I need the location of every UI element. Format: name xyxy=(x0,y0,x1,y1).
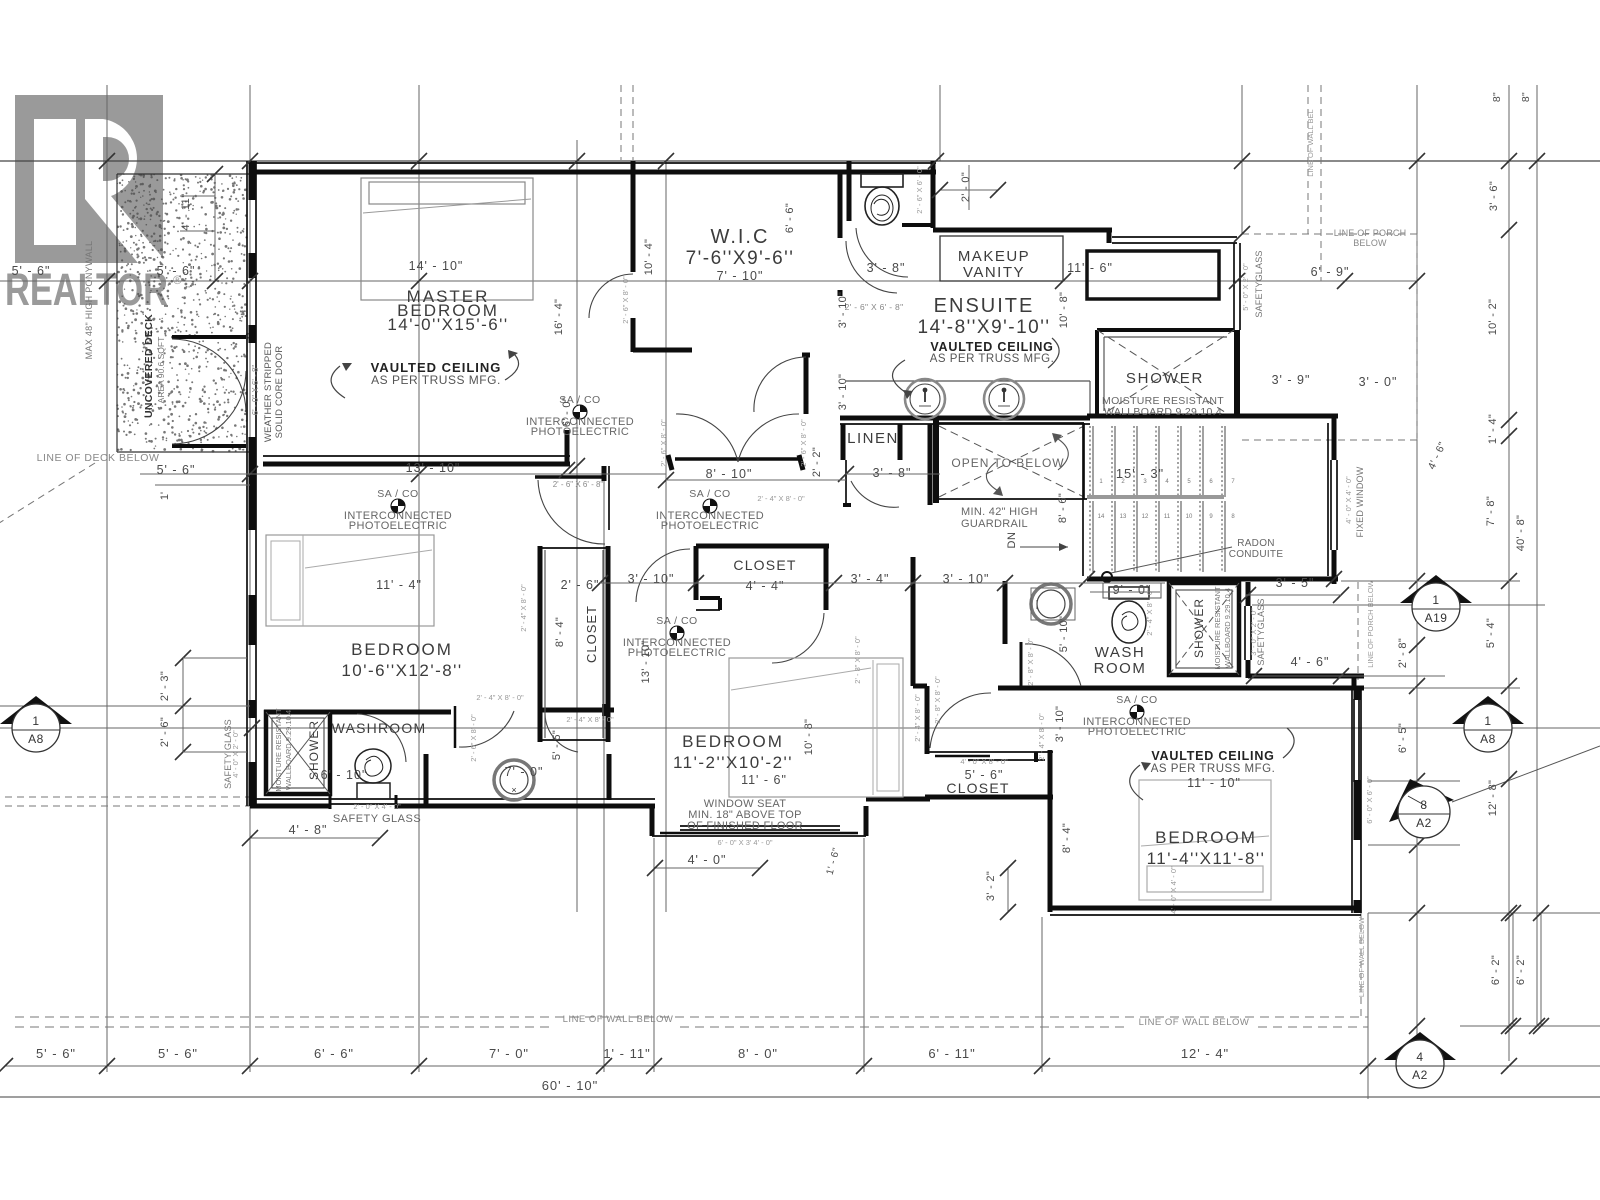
svg-text:AS PER TRUSS MFG.: AS PER TRUSS MFG. xyxy=(1151,763,1276,775)
svg-text:VANITY: VANITY xyxy=(963,264,1025,281)
svg-text:SAFETY GLASS: SAFETY GLASS xyxy=(333,813,421,825)
svg-text:3' - 9": 3' - 9" xyxy=(1272,373,1311,387)
svg-text:2' - 4" X 8' - 0": 2' - 4" X 8' - 0" xyxy=(913,694,922,742)
svg-text:WASH: WASH xyxy=(1095,644,1145,661)
svg-text:7' - 10": 7' - 10" xyxy=(717,269,764,283)
svg-text:10' - 8": 10' - 8" xyxy=(803,719,815,756)
svg-text:LINE OF WALL BEL: LINE OF WALL BEL xyxy=(1306,109,1315,176)
svg-text:12' - 4": 12' - 4" xyxy=(1181,1046,1229,1061)
svg-text:4' - 0" X 4' - 0": 4' - 0" X 4' - 0" xyxy=(1344,476,1353,524)
svg-text:PHOTOELECTRIC: PHOTOELECTRIC xyxy=(531,426,630,438)
svg-text:5' - 6": 5' - 6" xyxy=(965,768,1004,782)
svg-text:WEATHER STRIPPED: WEATHER STRIPPED xyxy=(263,342,274,442)
svg-text:6' - 0" X 3' 4' - 0": 6' - 0" X 3' 4' - 0" xyxy=(717,838,772,847)
svg-text:ROOM: ROOM xyxy=(1094,660,1147,677)
svg-text:6' - 2": 6' - 2" xyxy=(1515,955,1527,985)
svg-text:FIXED WINDOW: FIXED WINDOW xyxy=(1355,466,1365,537)
svg-text:VAULTED CEILING: VAULTED CEILING xyxy=(930,340,1053,354)
svg-text:LINEN: LINEN xyxy=(847,430,899,447)
svg-text:SHOWER: SHOWER xyxy=(1192,598,1206,658)
svg-text:PHOTOELECTRIC: PHOTOELECTRIC xyxy=(349,520,448,532)
svg-text:DN: DN xyxy=(1006,532,1018,549)
svg-text:2' - 6" X 6' - 8": 2' - 6" X 6' - 8" xyxy=(845,302,904,312)
svg-text:OPEN TO BELOW: OPEN TO BELOW xyxy=(951,456,1064,470)
svg-text:BEDROOM: BEDROOM xyxy=(1155,828,1257,847)
svg-text:2' - 4" X 8' - 0": 2' - 4" X 8' - 0" xyxy=(476,693,524,702)
svg-text:7' - 8": 7' - 8" xyxy=(1485,496,1497,526)
svg-text:SHOWER: SHOWER xyxy=(307,720,321,780)
svg-text:6' - 6": 6' - 6" xyxy=(314,1046,354,1061)
svg-text:2' - 0": 2' - 0" xyxy=(960,172,972,202)
svg-text:11: 11 xyxy=(1164,514,1171,520)
svg-text:5' - 6": 5' - 6" xyxy=(158,1046,198,1061)
svg-text:4' - 0": 4' - 0" xyxy=(688,853,727,867)
svg-text:11' - 6": 11' - 6" xyxy=(1067,261,1113,275)
svg-text:RADON: RADON xyxy=(1237,538,1275,549)
svg-text:ENSUITE: ENSUITE xyxy=(934,295,1035,317)
svg-text:A8: A8 xyxy=(1480,732,1496,746)
svg-text:SA / CO: SA / CO xyxy=(1116,694,1157,706)
svg-text:MOISTURE RESISTANT: MOISTURE RESISTANT xyxy=(274,708,283,792)
svg-text:40' - 8": 40' - 8" xyxy=(1515,515,1527,552)
svg-text:CLOSET: CLOSET xyxy=(733,557,796,573)
svg-text:×: × xyxy=(511,785,516,795)
svg-text:6' - 10": 6' - 10" xyxy=(321,768,368,782)
svg-text:LINE OF DECK BELOW: LINE OF DECK BELOW xyxy=(37,452,160,464)
svg-text:11' - 4": 11' - 4" xyxy=(376,578,422,592)
svg-text:8": 8" xyxy=(1491,92,1503,102)
svg-text:8": 8" xyxy=(1520,92,1532,102)
svg-text:3' - 10": 3' - 10" xyxy=(1054,706,1066,743)
svg-text:2' - 6" X 8' - 0": 2' - 6" X 8' - 0" xyxy=(799,419,808,467)
svg-text:7'-6''X9'-6'': 7'-6''X9'-6'' xyxy=(686,248,795,269)
svg-text:5' - 6": 5' - 6" xyxy=(157,264,196,278)
svg-text:6' - 0" X 6' - 0": 6' - 0" X 6' - 0" xyxy=(1365,776,1374,824)
svg-text:11' - 10": 11' - 10" xyxy=(1187,776,1241,790)
svg-text:2' - 6" X 8' - 0": 2' - 6" X 8' - 0" xyxy=(621,276,630,324)
svg-text:BEDROOM: BEDROOM xyxy=(351,640,453,659)
svg-text:4' - 6": 4' - 6" xyxy=(1291,655,1330,669)
svg-text:8' - 4": 8' - 4" xyxy=(554,617,566,647)
svg-text:11'-4''X11'-8'': 11'-4''X11'-8'' xyxy=(1147,849,1266,868)
svg-text:2' - 4" X 8' - 0": 2' - 4" X 8' - 0" xyxy=(1145,588,1154,636)
svg-text:SA / CO: SA / CO xyxy=(656,615,697,627)
svg-text:14'-8''X9'-10'': 14'-8''X9'-10'' xyxy=(918,317,1051,338)
svg-text:1: 1 xyxy=(1484,714,1491,728)
svg-text:10'-6''X12'-8'': 10'-6''X12'-8'' xyxy=(341,661,462,680)
svg-text:10' - 4": 10' - 4" xyxy=(643,239,655,276)
svg-text:WASHROOM: WASHROOM xyxy=(332,720,427,736)
svg-text:A8: A8 xyxy=(28,732,44,746)
svg-text:10' - 8": 10' - 8" xyxy=(1058,292,1070,329)
svg-text:13' - 10": 13' - 10" xyxy=(406,461,461,475)
svg-text:11' - 6": 11' - 6" xyxy=(741,773,787,787)
svg-text:12: 12 xyxy=(1142,514,1149,520)
svg-text:5' - 6": 5' - 6" xyxy=(12,264,51,278)
svg-text:5' - 10": 5' - 10" xyxy=(1058,616,1070,653)
svg-text:1: 1 xyxy=(1432,593,1439,607)
svg-text:1' - 4": 1' - 4" xyxy=(1487,414,1499,444)
svg-text:2' - 6" X 6' - 8": 2' - 6" X 6' - 8" xyxy=(553,480,604,489)
svg-text:SA / CO: SA / CO xyxy=(689,488,730,500)
svg-text:SAFETYGLASS: SAFETYGLASS xyxy=(1254,250,1264,317)
svg-text:CONDUITE: CONDUITE xyxy=(1229,549,1284,560)
svg-text:2' - 8" X 8' - 0": 2' - 8" X 8' - 0" xyxy=(1026,638,1035,686)
svg-text:12' - 8": 12' - 8" xyxy=(1487,780,1499,817)
svg-text:1': 1' xyxy=(159,492,171,500)
svg-text:GUARDRAIL: GUARDRAIL xyxy=(961,518,1028,530)
svg-text:2' - 4" X 8' - 0": 2' - 4" X 8' - 0" xyxy=(757,494,805,503)
svg-text:16' - 4": 16' - 4" xyxy=(553,299,565,336)
svg-text:2' - 4" X 8' - 0": 2' - 4" X 8' - 0" xyxy=(566,715,614,724)
svg-text:5' - 0" X 2' - 0": 5' - 0" X 2' - 0" xyxy=(1241,263,1250,311)
svg-text:8' - 6": 8' - 6" xyxy=(1057,493,1069,523)
svg-text:6' - 0" X 6' - 8": 6' - 0" X 6' - 8" xyxy=(251,365,260,416)
svg-text:3' - 2": 3' - 2" xyxy=(985,871,997,901)
svg-text:3' - 5": 3' - 5" xyxy=(1276,576,1315,590)
svg-text:3' - 10": 3' - 10" xyxy=(837,292,849,329)
svg-text:5' - 4": 5' - 4" xyxy=(1485,618,1497,648)
svg-text:8' - 0": 8' - 0" xyxy=(738,1046,778,1061)
svg-text:14: 14 xyxy=(1098,514,1105,520)
svg-text:4' - 0" X 4' - 0": 4' - 0" X 4' - 0" xyxy=(1169,866,1178,914)
svg-text:13' - 10": 13' - 10" xyxy=(640,641,652,684)
svg-text:AS PER TRUSS MFG.: AS PER TRUSS MFG. xyxy=(371,373,501,387)
svg-text:3' - 0" X 2' - 0": 3' - 0" X 2' - 0" xyxy=(1249,608,1258,656)
svg-text:6' - 0": 6' - 0" xyxy=(561,397,573,427)
svg-text:PHOTOELECTRIC: PHOTOELECTRIC xyxy=(1088,726,1187,738)
svg-text:A2: A2 xyxy=(1412,1068,1428,1082)
svg-text:2' - 8" X 8' - 0": 2' - 8" X 8' - 0" xyxy=(933,676,942,724)
svg-text:PHOTOELECTRIC: PHOTOELECTRIC xyxy=(661,520,760,532)
svg-text:BELOW: BELOW xyxy=(1353,238,1387,248)
svg-text:6' - 5": 6' - 5" xyxy=(1397,723,1409,753)
svg-text:8' - 4": 8' - 4" xyxy=(1061,823,1073,853)
svg-text:4' - 8": 4' - 8" xyxy=(289,823,328,837)
svg-text:14' - 10": 14' - 10" xyxy=(409,259,464,273)
svg-text:SOLID CORE DOOR: SOLID CORE DOOR xyxy=(274,346,285,439)
svg-text:LINE OF PORCH BELOW: LINE OF PORCH BELOW xyxy=(1366,579,1375,667)
svg-text:2' - 2": 2' - 2" xyxy=(811,447,823,477)
svg-text:4: 4 xyxy=(1416,1050,1423,1064)
svg-text:5' - 6": 5' - 6" xyxy=(551,730,563,760)
svg-text:CLOSET: CLOSET xyxy=(946,780,1009,796)
svg-text:A19: A19 xyxy=(1425,611,1448,625)
svg-text:VAULTED CEILING: VAULTED CEILING xyxy=(1151,749,1274,763)
svg-text:CLOSET: CLOSET xyxy=(584,605,599,663)
svg-text:1: 1 xyxy=(32,714,39,728)
svg-text:SA / CO: SA / CO xyxy=(377,488,418,500)
svg-text:6' - 9": 6' - 9" xyxy=(1311,265,1350,279)
svg-text:6' - 11": 6' - 11" xyxy=(928,1046,975,1061)
svg-text:2' - 8": 2' - 8" xyxy=(1397,638,1409,668)
svg-text:15' - 3": 15' - 3" xyxy=(1116,466,1164,481)
svg-text:WALLBOARD 9.29.10.4: WALLBOARD 9.29.10.4 xyxy=(1104,406,1222,418)
svg-text:4' - 0" X 2' - 0": 4' - 0" X 2' - 0" xyxy=(231,730,240,778)
svg-text:2' - 6": 2' - 6" xyxy=(159,717,171,747)
svg-text:60' - 10": 60' - 10" xyxy=(542,1078,599,1093)
svg-text:2' - 6" X 6' - 0": 2' - 6" X 6' - 0" xyxy=(915,166,924,214)
svg-text:3' - 8": 3' - 8" xyxy=(873,466,912,480)
svg-text:2' - 0" X 4' - 0": 2' - 0" X 4' - 0" xyxy=(353,802,401,811)
svg-text:OF FINISHED FLOOR: OF FINISHED FLOOR xyxy=(687,820,803,832)
svg-text:8' - 10": 8' - 10" xyxy=(706,467,753,481)
svg-text:MAKEUP: MAKEUP xyxy=(958,248,1030,265)
svg-text:W.I.C: W.I.C xyxy=(711,226,770,248)
svg-text:LINE OF WALL BELOW: LINE OF WALL BELOW xyxy=(1139,1017,1250,1028)
svg-text:3' - 8": 3' - 8" xyxy=(867,261,906,275)
svg-text:WALLBOARD 9.29.10.4: WALLBOARD 9.29.10.4 xyxy=(1223,588,1232,668)
svg-text:4' - 11": 4' - 11" xyxy=(180,193,192,230)
svg-text:AREA 90.6 SQFT: AREA 90.6 SQFT xyxy=(156,337,166,404)
svg-text:WALLBOARD 9.29.10.4: WALLBOARD 9.29.10.4 xyxy=(284,710,293,790)
svg-text:3' - 10": 3' - 10" xyxy=(628,572,675,586)
svg-text:10' - 2": 10' - 2" xyxy=(1487,299,1499,336)
svg-text:LINE OF PORCH: LINE OF PORCH xyxy=(1334,228,1407,238)
svg-text:LINE OF WALL BELOW: LINE OF WALL BELOW xyxy=(1357,916,1366,997)
svg-text:3' - 4": 3' - 4" xyxy=(851,572,890,586)
svg-text:UNCOVERED DECK: UNCOVERED DECK xyxy=(143,314,155,418)
svg-text:3' - 10": 3' - 10" xyxy=(943,572,990,586)
svg-text:SHOWER: SHOWER xyxy=(1126,370,1204,387)
svg-text:11'-2''X10'-2'': 11'-2''X10'-2'' xyxy=(673,753,793,772)
svg-text:7' - 0": 7' - 0" xyxy=(505,765,544,779)
svg-text:4' - 4": 4' - 4" xyxy=(746,579,785,593)
svg-text:LINE OF WALL BELOW: LINE OF WALL BELOW xyxy=(563,1014,674,1025)
svg-text:14'-0''X15'-6'': 14'-0''X15'-6'' xyxy=(387,315,508,334)
svg-text:5' - 6": 5' - 6" xyxy=(157,463,196,477)
svg-text:10: 10 xyxy=(1186,514,1193,520)
svg-text:6' - 2": 6' - 2" xyxy=(1490,955,1502,985)
svg-text:6' - 6": 6' - 6" xyxy=(784,203,796,233)
svg-text:2' - 6" X 8' - 0": 2' - 6" X 8' - 0" xyxy=(469,714,478,762)
svg-text:3' - 10": 3' - 10" xyxy=(837,374,849,411)
svg-text:MIN. 42" HIGH: MIN. 42" HIGH xyxy=(961,506,1038,518)
svg-text:AS PER TRUSS MFG.: AS PER TRUSS MFG. xyxy=(930,353,1055,365)
svg-text:7' - 0": 7' - 0" xyxy=(489,1046,529,1061)
svg-text:3' - 0": 3' - 0" xyxy=(1359,375,1398,389)
svg-text:2' - 8" X 8' - 0": 2' - 8" X 8' - 0" xyxy=(853,636,862,684)
svg-text:2' - 4" X 8' - 0": 2' - 4" X 8' - 0" xyxy=(519,584,528,632)
svg-text:2' - 4" X 8' - 0": 2' - 4" X 8' - 0" xyxy=(1037,713,1046,761)
svg-text:MAX 48" HIGH PONYWALL: MAX 48" HIGH PONYWALL xyxy=(84,241,94,360)
svg-text:5' - 6": 5' - 6" xyxy=(36,1046,76,1061)
svg-text:BEDROOM: BEDROOM xyxy=(682,732,784,751)
svg-text:3' - 6": 3' - 6" xyxy=(1488,181,1500,211)
svg-text:13: 13 xyxy=(1120,514,1127,520)
svg-text:2' - 6" X 8' - 0": 2' - 6" X 8' - 0" xyxy=(659,419,668,467)
svg-text:A2: A2 xyxy=(1416,816,1432,830)
svg-text:4' - 0" X 8' - 0": 4' - 0" X 8' - 0" xyxy=(960,757,1008,766)
svg-text:MOISTURE RESISTANT: MOISTURE RESISTANT xyxy=(1213,586,1222,670)
svg-text:2' - 3": 2' - 3" xyxy=(159,671,171,701)
